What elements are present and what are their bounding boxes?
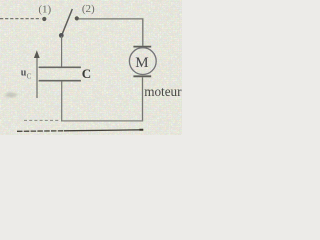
svg-text:(1): (1) xyxy=(38,3,51,15)
wire: motor bottom down xyxy=(142,77,144,121)
svg-text:moteur: moteur xyxy=(144,84,182,99)
capacitor C bottom plate xyxy=(39,80,81,82)
background paper xyxy=(0,0,182,135)
voltage arrow u_C xyxy=(36,53,38,98)
wire: dashed lead-in to contact 1 xyxy=(0,18,41,20)
wire: top horizontal from contact 2 then down to motor xyxy=(79,19,143,46)
motor M top terminal tick xyxy=(133,46,151,48)
wire: bottom dashed lead xyxy=(24,119,60,121)
node: contact (1) xyxy=(42,17,46,21)
bottom border line of figure xyxy=(17,130,64,133)
svg-text:(2): (2) xyxy=(82,3,95,15)
svg-text:M: M xyxy=(135,55,148,71)
svg-text:C: C xyxy=(27,73,32,81)
switch pivot node xyxy=(59,33,64,38)
motor M body xyxy=(129,48,156,75)
faint smudge artifact left edge xyxy=(5,93,17,97)
switch K lever xyxy=(62,9,73,36)
wire: switch pivot down to capacitor xyxy=(61,36,63,67)
capacitor C top plate xyxy=(39,66,81,68)
wire: capacitor bottom down xyxy=(61,81,63,121)
node: contact (2) xyxy=(75,16,79,20)
wire: bottom horizontal (solid) xyxy=(61,120,143,122)
svg-text:C: C xyxy=(82,66,91,81)
motor M bottom terminal tick xyxy=(133,75,151,77)
